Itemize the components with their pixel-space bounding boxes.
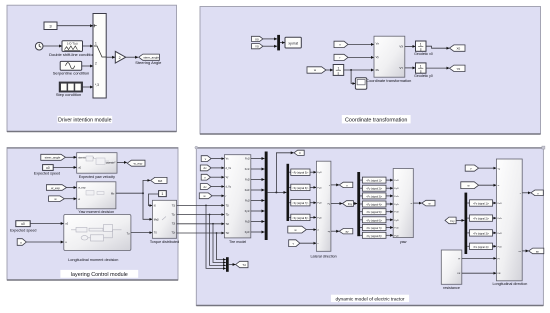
wire lookup to switch port 1	[83, 45, 94, 47]
wire force mux to demux1	[268, 191, 287, 193]
svg-text:Fy2l: Fy2l	[394, 220, 399, 222]
wire T1r from torque to tire	[177, 214, 225, 216]
svg-text:Fx2l: Fx2l	[245, 179, 250, 182]
corner handle top-right of module 4	[542, 146, 545, 149]
wire mux to goto Td	[229, 264, 236, 266]
wire mux to To File	[280, 42, 285, 44]
wire steer_angle to expected yaw velocity	[65, 156, 76, 158]
selector tag Fx signal 2 (long)	[467, 215, 496, 221]
subsystem Yaw moment decision	[77, 182, 116, 209]
wire T2r from torque to tire	[177, 232, 225, 234]
svg-text:Fx1r: Fx1r	[394, 195, 399, 198]
from tag v (lateral)	[289, 240, 300, 247]
wire T1r branch to Td mux	[210, 215, 226, 266]
module label: layering Control module	[60, 270, 138, 278]
svg-text:Step condition: Step condition	[56, 92, 81, 97]
from tag dv (d_Vx)	[200, 165, 211, 171]
svg-text:u0: u0	[46, 166, 50, 170]
wire w_exp to yaw moment decision	[67, 187, 77, 189]
svg-text:layering Control module: layering Control module	[71, 272, 128, 278]
svg-text:Vy: Vy	[376, 55, 380, 59]
svg-text:1-D T(u): 1-D T(u)	[67, 42, 78, 46]
svg-text:<Fy (signal 6)>: <Fy (signal 6)>	[292, 187, 309, 190]
svg-text:FR: FR	[457, 273, 460, 275]
subsystem Expected yaw velocity	[77, 153, 117, 174]
svg-text:T2r: T2r	[171, 232, 175, 235]
wire dv to tire d_Vy	[211, 186, 224, 188]
svg-text:Fy1r: Fy1r	[394, 203, 399, 206]
goto tag MZ	[151, 177, 167, 183]
integrator out2	[416, 63, 427, 73]
svg-text:Fy2r: Fy2r	[317, 216, 322, 219]
svg-text:<Fx (signal 5)>: <Fx (signal 5)>	[366, 211, 383, 214]
svg-text:<Fy (signal 4)>: <Fy (signal 4)>	[366, 204, 383, 207]
wire sine to switch port 2	[82, 65, 93, 67]
svg-text:Expected speed: Expected speed	[34, 171, 60, 175]
svg-text:Tire model: Tire model	[229, 240, 246, 244]
junction dots on T wires	[205, 205, 217, 234]
constant u0 (lower)	[16, 221, 30, 227]
svg-text:yaw: yaw	[400, 240, 407, 244]
wire T2l branch to Td mux	[213, 224, 226, 263]
To File block xy.mat	[285, 37, 301, 48]
svg-text:Fx2l: Fx2l	[498, 233, 503, 235]
svg-text:Fx2r: Fx2r	[394, 227, 399, 230]
wire clock to lookup table	[43, 45, 62, 47]
wire VX to integrator1	[405, 45, 416, 47]
junction dot Pu branch	[350, 69, 352, 71]
svg-text:Longitudinal moment decision: Longitudinal moment decision	[68, 258, 118, 262]
goto tag v	[339, 182, 353, 187]
wire longitudinal ax to goto ax	[522, 250, 528, 252]
selector tag Fy signal 2 (yaw)	[360, 185, 393, 191]
from tag w	[199, 193, 212, 199]
svg-text:Yaw moment decision: Yaw moment decision	[78, 210, 114, 214]
wire w to tire r	[212, 195, 224, 197]
svg-text:<Fy (signal 2)>: <Fy (signal 2)>	[366, 188, 383, 191]
svg-text:X0: X0	[255, 37, 259, 41]
svg-text:T2r: T2r	[226, 232, 230, 235]
svg-text:<Fx (signal 3)>: <Fx (signal 3)>	[366, 195, 383, 198]
svg-text:Fy1r: Fy1r	[245, 210, 250, 213]
svg-text:Lateral direction: Lateral direction	[310, 255, 336, 259]
svg-text:steer_angle: steer_angle	[45, 156, 61, 160]
from tag Fxy (longitudinal)	[445, 217, 456, 224]
svg-text:d_Vx: d_Vx	[226, 167, 232, 170]
selector tag Fy signal 8 (yaw)	[360, 232, 393, 238]
wire yaw to goto w	[413, 202, 421, 204]
subsystem Tire model	[224, 155, 250, 238]
step block "Step condition"	[59, 82, 82, 92]
from tag X0	[252, 36, 263, 41]
integrator 1/s (input)	[333, 65, 344, 76]
subsystem Coordinate transformation	[374, 36, 405, 77]
wire lateral ay out to goto ay	[331, 230, 339, 232]
goto tag F	[294, 150, 304, 155]
from tag v	[334, 41, 348, 47]
selector tag Fy signal 8	[289, 214, 316, 220]
wire Tu to torque port T0	[131, 232, 152, 234]
wire lateral v out to goto v	[331, 184, 339, 186]
from tag v (Vy)	[201, 174, 210, 180]
svg-text:<Fx (signal 1)>: <Fx (signal 1)>	[473, 203, 490, 206]
svg-text:s: s	[420, 47, 422, 51]
from tag r	[334, 54, 348, 60]
svg-text:1: 1	[420, 65, 422, 69]
wire dv to tire d_Vx	[211, 167, 224, 169]
wire r to subsystem Vy	[348, 56, 374, 58]
junction dot Mz	[142, 192, 144, 194]
svg-text:Fx2r: Fx2r	[498, 245, 503, 248]
wire constant 1 to torque port i0	[149, 194, 159, 206]
svg-text:1: 1	[420, 43, 422, 47]
svg-text:Fx1r: Fx1r	[245, 168, 250, 171]
from tag w	[307, 67, 326, 73]
module label: Driver intention module	[57, 116, 112, 124]
wire X0 to mux	[263, 38, 277, 40]
svg-text:Steering Angle: Steering Angle	[135, 60, 162, 65]
subsystem Torque distributed	[152, 200, 176, 238]
wires tire outputs to force mux	[251, 159, 265, 233]
clock block	[35, 42, 43, 50]
svg-text:FR: FR	[498, 273, 501, 275]
svg-text:Fy2l: Fy2l	[245, 221, 250, 224]
gain triangle "2"	[115, 51, 125, 63]
svg-text:w_exp: w_exp	[134, 162, 143, 166]
svg-text:Vx: Vx	[376, 42, 380, 46]
svg-text:T2l: T2l	[226, 223, 230, 226]
goto tag Td	[236, 261, 248, 267]
svg-text:Fxy: Fxy	[348, 202, 353, 206]
svg-text:Fy2r: Fy2r	[245, 231, 250, 234]
scope block	[355, 78, 366, 90]
area: dynamic model of electric tractor	[196, 148, 543, 306]
svg-text:Torque distributed: Torque distributed	[150, 240, 179, 244]
subsystem Longitudinal direction	[496, 159, 522, 281]
svg-text:<Fy (signal 8)>: <Fy (signal 8)>	[292, 217, 309, 220]
area: Driver intention module	[7, 5, 177, 131]
wire T2r branch to Td mux	[217, 233, 226, 260]
svg-text:s: s	[420, 69, 422, 73]
corner handle top-left of module 4	[195, 146, 198, 149]
svg-text:<Fy (signal 5)>: <Fy (signal 5)>	[292, 172, 309, 175]
wire branch down to scope	[351, 70, 355, 84]
svg-text:<Fx (signal 7)>: <Fx (signal 7)>	[366, 227, 383, 230]
wire w to yaw moment decision	[64, 198, 76, 200]
svg-text:Double shift-line condition: Double shift-line condition	[49, 52, 95, 57]
wire Fxy to demux yaw	[353, 203, 357, 205]
integrator out1	[416, 41, 427, 51]
junction dot force bus	[275, 191, 277, 193]
module label: Coordinate transformation	[342, 115, 411, 123]
svg-text:Coordinate transformation: Coordinate transformation	[345, 117, 407, 123]
svg-text:<Fx (signal 1)>: <Fx (signal 1)>	[366, 180, 383, 183]
selector tag Fy signal 7	[289, 200, 316, 206]
goto tag ay	[339, 229, 353, 234]
subsystem Longitudinal moment decision	[64, 215, 131, 251]
svg-text:Driver intention module: Driver intention module	[58, 117, 111, 123]
wire branch up to goto F	[276, 153, 293, 193]
wire gain to goto steer_angle	[126, 56, 138, 58]
svg-text:<Fy (signal 7)>: <Fy (signal 7)>	[292, 202, 309, 205]
wire v to tire Vy	[211, 176, 225, 178]
goto tag w_exp	[127, 160, 145, 166]
svg-text:1: 1	[95, 42, 97, 46]
svg-text:dynamic model of electric trac: dynamic model of electric tractor	[335, 296, 404, 302]
wire integrator1 to goto X0	[426, 46, 449, 48]
selector tag Fy signal 6 (yaw)	[360, 217, 393, 223]
svg-text:2: 2	[119, 56, 121, 60]
wire junction up to goto MZ	[143, 180, 150, 193]
wire T1l branch to Td mux	[206, 205, 226, 268]
goto tag w	[422, 200, 435, 206]
svg-text:*,3: *,3	[95, 83, 99, 87]
svg-text:Pu: Pu	[376, 68, 380, 72]
goto tag steer_angle	[139, 54, 160, 60]
svg-text:T1l: T1l	[172, 205, 176, 208]
wire expected yaw velocity to goto w_exp	[117, 161, 127, 163]
wire u to longitudinal moment decision	[26, 241, 63, 243]
svg-text:Fy2l: Fy2l	[317, 203, 322, 205]
svg-text:Fxy: Fxy	[450, 219, 455, 223]
svg-text:Y0: Y0	[456, 67, 460, 71]
selector tag Fx signal 7 (yaw)	[360, 225, 393, 231]
svg-text:T1l: T1l	[226, 204, 230, 207]
svg-text:xy.mat: xy.mat	[288, 41, 298, 45]
svg-text:Td: Td	[242, 263, 246, 267]
svg-text:Fy1l: Fy1l	[245, 200, 250, 203]
from tag w (lateral)	[288, 226, 307, 233]
svg-text:<Fx (signal 4)>: <Fx (signal 4)>	[473, 246, 490, 249]
svg-text:<Fy (signal 8)>: <Fy (signal 8)>	[366, 235, 383, 238]
svg-text:Fy1r: Fy1r	[317, 186, 322, 189]
wire v to tire Vx	[211, 158, 224, 160]
svg-text:d_Vy: d_Vy	[226, 186, 232, 189]
constant block "3"	[44, 22, 57, 30]
wire Y0 to mux	[263, 45, 277, 47]
svg-text:1: 1	[161, 192, 163, 196]
svg-text:Fy2r: Fy2r	[394, 234, 399, 237]
force mux	[265, 152, 268, 241]
svg-text:Expected yaw velocity: Expected yaw velocity	[79, 175, 115, 179]
demux lateral forces	[287, 164, 290, 221]
svg-text:Serpentine condition: Serpentine condition	[53, 71, 89, 76]
svg-text:s: s	[338, 72, 340, 76]
svg-text:Y0: Y0	[255, 45, 259, 49]
selector tag Fx signal 4 (long)	[467, 243, 496, 249]
svg-text:yawrate*: yawrate*	[106, 162, 116, 165]
wire v to lateral	[300, 242, 316, 244]
wire longitudinal v to goto v	[522, 192, 531, 194]
wire resistance FR to longitudinal	[462, 272, 496, 274]
svg-text:MZ: MZ	[158, 179, 162, 183]
wire T2l from torque to tire	[177, 223, 225, 225]
goto tag ax	[529, 248, 544, 254]
svg-text:u0: u0	[21, 222, 25, 226]
svg-text:Fx2r: Fx2r	[245, 189, 250, 192]
wire v to longitudinal	[479, 167, 497, 169]
from tag v (Vx)	[201, 156, 211, 162]
wire u0 to expected yaw velocity	[53, 166, 76, 168]
goto tag X0	[450, 45, 466, 51]
from tag steer_angle	[41, 154, 66, 160]
selector tag Fx signal 1 (long)	[467, 200, 496, 206]
wire v to subsystem Vx	[348, 43, 374, 45]
subsystem Lateral direction	[316, 161, 331, 251]
demux longitudinal forces	[465, 193, 468, 254]
tag Fxy (mid)	[343, 201, 354, 207]
wire integrator2 to goto Y0	[426, 67, 449, 69]
svg-text:2: 2	[95, 62, 97, 66]
wire resistance Ff to longitudinal	[462, 257, 496, 259]
selector tag Fy signal 5	[289, 169, 316, 175]
svg-text:Longitudinal direction: Longitudinal direction	[492, 282, 527, 286]
subsystem yaw	[393, 169, 413, 238]
wire w to longitudinal	[479, 184, 497, 186]
subsystem resistance	[441, 250, 462, 284]
lookup table "Double shift-line condition"	[62, 41, 83, 52]
wire switch to gain	[106, 56, 115, 58]
svg-text:VX: VX	[399, 45, 403, 49]
svg-text:Fx1l: Fx1l	[394, 180, 399, 182]
svg-text:Geodetic x0: Geodetic x0	[414, 52, 433, 56]
selector tag Fy signal 4 (yaw)	[360, 201, 393, 207]
constant 1	[159, 191, 167, 197]
wire Mz to junction	[116, 192, 143, 194]
svg-text:resistance: resistance	[443, 286, 460, 290]
mux xy	[277, 35, 280, 51]
selector tag Fx signal 3 (yaw)	[360, 193, 393, 199]
area: Coordinate transformation	[200, 7, 541, 135]
selector tag Fx signal 1 (yaw)	[360, 177, 393, 183]
selector tags into yaw block	[360, 177, 393, 238]
wire Fxy to demux longitudinal	[456, 219, 464, 221]
wire u0 to longitudinal moment decision	[30, 223, 63, 225]
svg-text:Mzβ: Mzβ	[154, 218, 159, 221]
svg-text:<Fx (signal 2)>: <Fx (signal 2)>	[473, 218, 490, 221]
svg-text:X0: X0	[456, 47, 460, 51]
from tag u	[17, 239, 26, 246]
svg-text:T1r: T1r	[226, 214, 230, 217]
mux Td	[226, 257, 229, 272]
svg-text:1: 1	[337, 66, 339, 70]
svg-text:<Fx (signal 3)>: <Fx (signal 3)>	[473, 232, 490, 235]
multiport switch	[93, 14, 106, 99]
from tag w	[49, 196, 65, 202]
svg-text:Fy1l: Fy1l	[317, 172, 322, 174]
wire T1l from torque to tire	[177, 204, 225, 206]
svg-text:Fx1l: Fx1l	[245, 158, 250, 161]
wire lateral Fy out to tag Fxy	[331, 203, 342, 205]
selector tag Fx signal 3 (long)	[467, 230, 496, 236]
from tag v (longitudinal)	[465, 165, 478, 171]
svg-text:T1r: T1r	[171, 214, 175, 217]
goto tag Y0	[450, 65, 466, 71]
svg-text:Fx1l: Fx1l	[498, 203, 503, 205]
svg-text:w_exp: w_exp	[78, 187, 86, 190]
wire integrator to subsystem Pu with branch to scope	[344, 69, 374, 71]
wire junction down to torque port Mz	[143, 193, 152, 219]
goto tag v (right)	[531, 190, 543, 196]
wire VY to integrator2	[405, 67, 416, 69]
svg-text:Expected speed: Expected speed	[10, 229, 36, 233]
from tag dv (d_Vy)	[200, 184, 211, 190]
constant u0 (upper)	[43, 165, 54, 171]
sine block "Serpentine condition"	[60, 61, 81, 70]
svg-text:<Fy (signal 6)>: <Fy (signal 6)>	[366, 219, 383, 222]
wire w to integrator	[326, 69, 333, 71]
svg-text:Fx2l: Fx2l	[394, 212, 399, 214]
from tag w (longitudinal)	[461, 182, 479, 189]
svg-text:Geodetic y0: Geodetic y0	[414, 74, 433, 78]
svg-text:Coordinate transformation: Coordinate transformation	[366, 78, 411, 83]
svg-text:Fx1r: Fx1r	[498, 217, 503, 220]
svg-text:VY: VY	[399, 66, 403, 70]
module label: dynamic model of electric tractor	[331, 295, 409, 303]
svg-text:r: r	[340, 56, 341, 60]
svg-text:Fy1l: Fy1l	[394, 188, 399, 190]
area: layering Control module	[7, 148, 178, 280]
demux yaw forces	[357, 172, 360, 236]
from tag w_exp	[46, 185, 66, 191]
svg-text:w_exp: w_exp	[51, 186, 60, 190]
from tag Y0	[252, 44, 263, 49]
selector tag Fx signal 5 (yaw)	[360, 209, 393, 215]
svg-text:T2l: T2l	[172, 223, 176, 226]
wire w to lateral	[306, 229, 316, 231]
selector tag Fy signal 6	[289, 184, 316, 190]
svg-text:w: w	[78, 198, 80, 201]
wire constant3 to switch control port	[57, 25, 93, 27]
wire step to switch port 3	[83, 86, 94, 88]
